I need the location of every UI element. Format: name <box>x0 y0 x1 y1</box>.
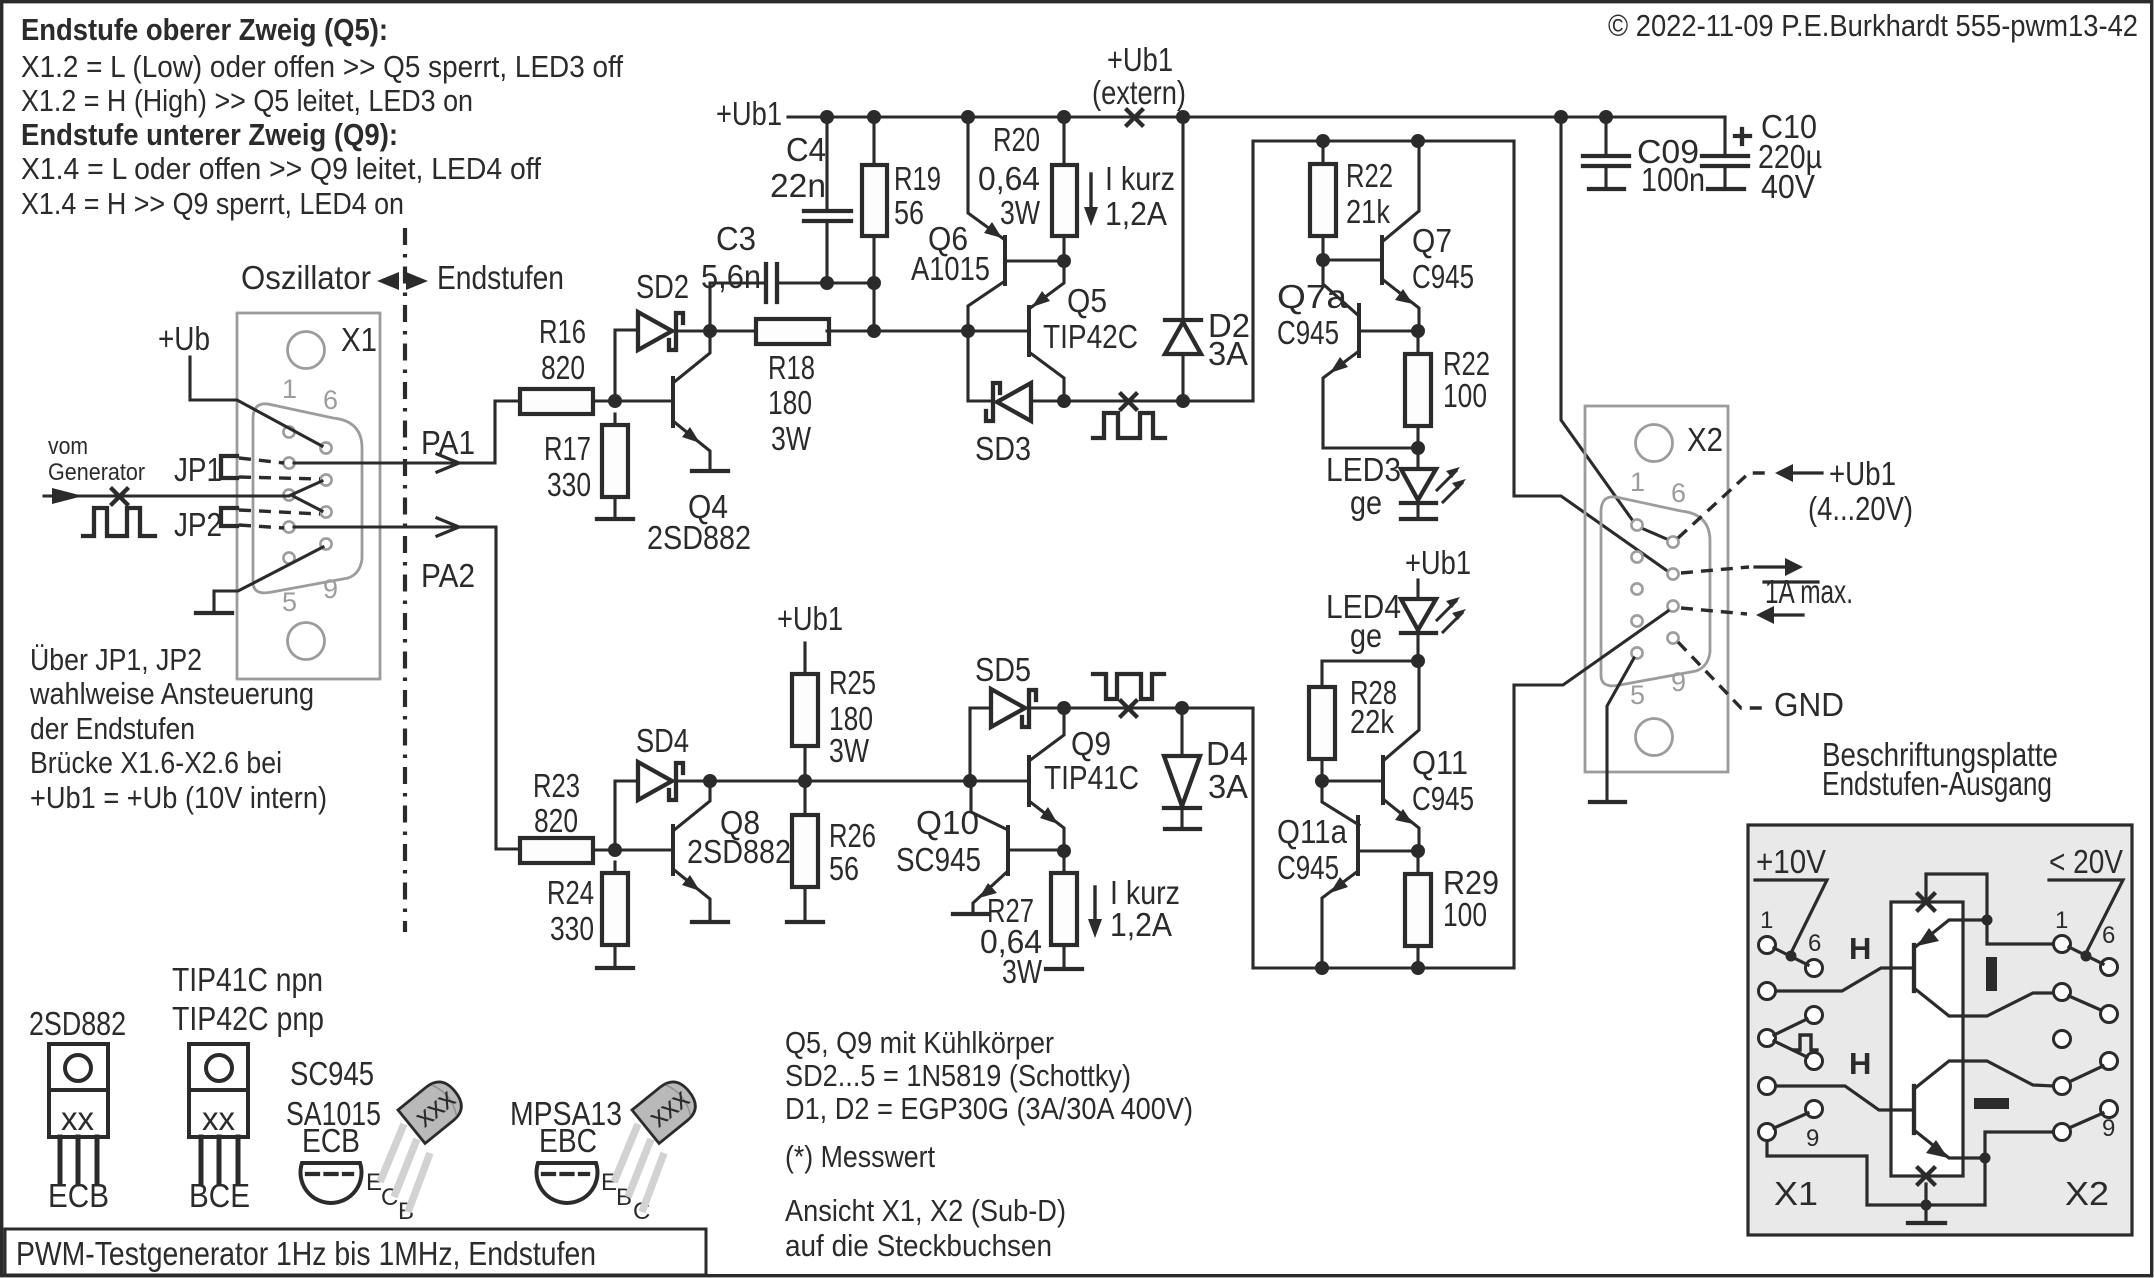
panel X2 pin 8 circle <box>2101 1053 2118 1070</box>
svg-text:xx: xx <box>202 1100 236 1137</box>
wire bottom rail up to X2 pin 8 <box>1514 611 1668 968</box>
node rail/Q6 emitter <box>961 110 975 124</box>
svg-text:auf die Steckbuchsen: auf die Steckbuchsen <box>785 1228 1052 1263</box>
svg-text:+Ub1 = +Ub (10V intern): +Ub1 = +Ub (10V intern) <box>30 780 327 815</box>
svg-text:2SD882: 2SD882 <box>687 833 791 870</box>
svg-text:+Ub1: +Ub1 <box>777 600 843 637</box>
svg-text:9: 9 <box>1671 667 1686 697</box>
svg-text:3A: 3A <box>1208 335 1248 372</box>
svg-text:6: 6 <box>323 385 338 415</box>
svg-text:SD2: SD2 <box>636 268 689 305</box>
TO-220 package 2SD882 <box>48 1044 109 1214</box>
square wave icon (generator) <box>83 508 155 536</box>
svg-text:R20: R20 <box>993 121 1040 158</box>
resistor R20 <box>1052 165 1077 236</box>
svg-text:5: 5 <box>1630 680 1645 710</box>
svg-text:A1015: A1015 <box>911 250 990 287</box>
resistor R17 <box>602 425 628 497</box>
ground terminal X2 <box>1590 800 1625 804</box>
ground terminal Q10 <box>953 912 989 916</box>
node rail2/Q7 collector <box>1411 134 1425 148</box>
TO-92 3D package (SC945) <box>380 1075 469 1212</box>
svg-text:6: 6 <box>1671 478 1686 508</box>
svg-text:EBC: EBC <box>539 1122 597 1159</box>
x mark on +Ub1 rail <box>1127 110 1142 125</box>
svg-text:1,2A: 1,2A <box>1110 906 1172 943</box>
panel wire emitter to pin5 (X2) <box>1985 1132 2054 1158</box>
svg-text:56: 56 <box>829 850 859 887</box>
svg-text:R17: R17 <box>544 430 591 467</box>
panel X2 pin 1 circle <box>2054 936 2071 953</box>
svg-text:Generator: Generator <box>48 459 145 486</box>
resistor R28 <box>1309 687 1335 759</box>
svg-text:3W: 3W <box>829 732 870 769</box>
svg-text:1: 1 <box>1760 907 1773 934</box>
panel lower transistor (NPN) <box>1912 1086 1916 1133</box>
TO-92 outline MPSA13 <box>537 1163 651 1225</box>
arrows between Oszillator and Endstufen <box>377 272 399 290</box>
+Ub1 rail wire <box>788 115 1725 118</box>
svg-text:6: 6 <box>1808 930 1821 957</box>
svg-text:22k: 22k <box>1350 703 1394 740</box>
svg-text:SC945: SC945 <box>896 841 981 878</box>
LED4 light arrows <box>1437 601 1456 620</box>
resistor R16 <box>520 389 593 414</box>
svg-text:JP1: JP1 <box>174 451 222 488</box>
panel X2 pin 4 circle <box>2054 1078 2071 1095</box>
arrow return <box>1756 606 1774 624</box>
svg-text:SD2...5 = 1N5819 (Schottky): SD2...5 = 1N5819 (Schottky) <box>785 1058 1131 1093</box>
svg-text:180: 180 <box>768 384 812 421</box>
svg-text:X1: X1 <box>341 321 377 358</box>
svg-text:100: 100 <box>1443 377 1487 414</box>
svg-text:56: 56 <box>894 194 924 231</box>
panel X2 pin 5 circle <box>2054 1124 2071 1141</box>
wire vom Generator to X1 pin 3 <box>44 494 289 497</box>
dashed return X2 pin 8 <box>1681 608 1747 614</box>
panel X2 pin 6 circle <box>2101 959 2118 976</box>
note text block top-left <box>21 12 623 221</box>
wire Q4 collector node to R18 <box>710 329 756 332</box>
ground terminal R17 <box>597 517 633 521</box>
svg-text:Oszillator: Oszillator <box>241 259 371 296</box>
dashed GND X2 pin 9 <box>1678 642 1766 708</box>
TO-92 outline SC945/SA1015 <box>300 1163 414 1225</box>
panel X2 pin 7 circle <box>2101 1006 2118 1023</box>
TO-220 package TIP41C/42C <box>189 1044 250 1214</box>
svg-text:C945: C945 <box>1277 849 1339 886</box>
svg-text:1,2A: 1,2A <box>1105 195 1167 232</box>
svg-text:ge: ge <box>1350 484 1382 521</box>
panel mark I (high) <box>1986 957 1997 991</box>
resistor R25 <box>792 674 818 746</box>
svg-text:100: 100 <box>1443 896 1487 933</box>
svg-text:9: 9 <box>323 574 338 604</box>
X1 pin 3 <box>283 489 294 500</box>
X1 pin 5 <box>283 552 294 563</box>
X2 pin 2 <box>1631 551 1642 562</box>
node D2/output <box>1176 394 1190 408</box>
wire rail lower <box>710 779 970 782</box>
panel X1 pin 4 circle <box>1759 1078 1776 1095</box>
node LED4/Q11 collector/R28 <box>1411 654 1425 668</box>
svg-text:Über JP1, JP2: Über JP1, JP2 <box>30 642 202 677</box>
svg-text:SD3: SD3 <box>975 430 1031 467</box>
svg-text:LED3: LED3 <box>1326 451 1401 488</box>
output wire upper stage <box>1064 399 1253 402</box>
svg-text:Endstufen: Endstufen <box>437 259 564 296</box>
svg-text:21k: 21k <box>1346 193 1390 230</box>
arrow +Ub1 extern <box>1775 464 1793 482</box>
svg-text:9: 9 <box>1806 1125 1819 1152</box>
resistor R26 <box>792 815 818 887</box>
square wave icon upper output <box>1093 413 1165 438</box>
x mark box bottom <box>1918 1168 1934 1184</box>
X2 pin 6 <box>1667 536 1678 547</box>
svg-text:C945: C945 <box>1277 314 1339 351</box>
JP2 dashed wires <box>239 510 320 514</box>
panel X1 pin 5 circle <box>1759 1124 1776 1141</box>
X1 pin 8 <box>320 506 331 517</box>
panel X2 pin 3 circle <box>2054 1031 2071 1048</box>
svg-text:xx: xx <box>61 1100 95 1137</box>
panel top loop wire <box>1926 874 2054 944</box>
X1 pin 4 <box>283 521 294 532</box>
svg-text:40V: 40V <box>1761 168 1815 205</box>
ground terminal X1 <box>196 611 232 615</box>
panel X1 pin 6 circle <box>1806 960 1823 977</box>
svg-text:Q7: Q7 <box>1412 222 1452 259</box>
svg-text:X1.2 = H (High) >> Q5 leitet,: X1.2 = H (High) >> Q5 leitet, LED3 on <box>21 83 473 118</box>
node Q10 collector/rail/SD5/Q9 base <box>963 774 977 788</box>
panel mark - (low) <box>1974 1098 2009 1109</box>
svg-text:+Ub1: +Ub1 <box>1405 544 1471 581</box>
svg-text:X2: X2 <box>2065 1175 2109 1212</box>
svg-text:D1, D2 = EGP30G (3A/30A 400V): D1, D2 = EGP30G (3A/30A 400V) <box>785 1091 1193 1126</box>
X2 pin 1 <box>1631 519 1642 530</box>
resistor R22 (21k) <box>1310 164 1336 236</box>
svg-text:330: 330 <box>547 466 591 503</box>
X2 pin 8 <box>1667 600 1678 611</box>
svg-text:+Ub1: +Ub1 <box>1107 41 1173 78</box>
svg-text:SD5: SD5 <box>975 651 1031 688</box>
svg-text:2SD882: 2SD882 <box>647 519 751 556</box>
node rail/R19 <box>867 110 881 124</box>
panel X1 pin 3 circle <box>1759 1030 1776 1047</box>
ground terminal R26 <box>787 920 823 924</box>
node R19/C3 <box>867 276 881 290</box>
svg-text:© 2022-11-09 P.E.Burkhardt 555: © 2022-11-09 P.E.Burkhardt 555-pwm13-42 <box>1608 8 2138 43</box>
node R23/R24/SD4 <box>608 843 622 857</box>
svg-text:SD4: SD4 <box>636 722 689 759</box>
svg-text:1: 1 <box>282 374 297 404</box>
bridge X2 pin1 to pin6 <box>1639 527 1669 540</box>
wire stub 1A max <box>1764 580 1818 583</box>
current arrow I kurz (lower) <box>1093 887 1096 925</box>
svg-text:R19: R19 <box>894 160 941 197</box>
title box <box>5 1229 706 1275</box>
svg-text:Q5: Q5 <box>1067 282 1107 319</box>
svg-text:(*) Messwert: (*) Messwert <box>785 1139 935 1174</box>
ground terminal D4 <box>1165 827 1200 831</box>
arrow output <box>1785 558 1803 576</box>
X1 pin 7 <box>320 474 331 485</box>
panel X2 1-6 bridge <box>2069 947 2103 964</box>
arrow PA2 <box>437 518 459 536</box>
svg-text:2SD882: 2SD882 <box>29 1005 126 1042</box>
panel X1 pin 1 circle <box>1759 937 1776 954</box>
x mark on generator wire <box>112 489 127 504</box>
ground terminal Q4 <box>692 469 728 473</box>
panel X2 2-7 bridge <box>2069 996 2103 1011</box>
arrow on generator wire <box>52 488 83 504</box>
svg-text:R23: R23 <box>533 767 580 804</box>
wire Y split X1 pin3 to pins 7 and 8 <box>291 481 322 511</box>
node Q4 collector / SD2 / C3 <box>703 324 717 338</box>
svg-text:ge: ge <box>1350 617 1382 654</box>
panel X1 pin 2 circle <box>1759 983 1776 1000</box>
panel wire pin2 to upper base <box>1776 968 1912 991</box>
node rail2/R22 <box>1316 134 1330 148</box>
node D4/output <box>1175 701 1189 715</box>
node R25/R26 <box>798 774 812 788</box>
node Q11 emitter/Q11a base/R29 <box>1411 844 1425 858</box>
svg-text:X1.4 = L oder offen >> Q9 leit: X1.4 = L oder offen >> Q9 leitet, LED4 o… <box>21 151 541 186</box>
svg-text:22n: 22n <box>770 167 826 204</box>
svg-text:9: 9 <box>2102 1115 2115 1142</box>
svg-text:BCE: BCE <box>189 1177 250 1214</box>
ground terminal R24 <box>597 966 633 970</box>
svg-text:330: 330 <box>550 910 594 947</box>
svg-text:X2: X2 <box>1687 421 1723 458</box>
svg-text:SC945: SC945 <box>290 1055 374 1092</box>
panel emitter node lower <box>1980 1153 1991 1164</box>
svg-text:Endstufe oberer Zweig (Q5):: Endstufe oberer Zweig (Q5): <box>21 12 388 47</box>
svg-text:H: H <box>1849 1046 1871 1081</box>
wire +Ub to X1 pin 6 <box>190 357 322 446</box>
node R19/R18 line <box>867 324 881 338</box>
node C3/C4 <box>820 276 834 290</box>
resistor R27 <box>1051 873 1077 945</box>
svg-text:TIP41C npn: TIP41C npn <box>172 961 323 998</box>
panel gnd symbol <box>1924 1184 1927 1222</box>
X2 pin 4 <box>1631 615 1642 626</box>
svg-text:H: H <box>1849 931 1871 966</box>
svg-text:3W: 3W <box>771 420 812 457</box>
connector X2 (DB9, gray) <box>1585 406 1728 772</box>
X1 pin 2 <box>283 457 294 468</box>
svg-text:R26: R26 <box>829 817 876 854</box>
panel wire emitter down to gnd rail <box>1983 1158 1986 1205</box>
X1 pin 9 <box>320 538 331 549</box>
svg-text:Ansicht X1, X2 (Sub-D): Ansicht X1, X2 (Sub-D) <box>785 1193 1066 1228</box>
panel small square wave <box>1794 1035 1817 1050</box>
svg-text:0,64: 0,64 <box>978 160 1040 197</box>
panel plate <box>1748 825 2132 1235</box>
X2 pin 5 <box>1631 647 1642 658</box>
dashed output X2 pin 7 <box>1681 567 1749 573</box>
wire output to LED driver (upper) <box>1253 141 1514 401</box>
panel gnd node <box>1921 1200 1932 1211</box>
svg-text:3W: 3W <box>1002 953 1043 990</box>
node Q5 collector/SD3 <box>1057 394 1071 408</box>
X2 pin 7 <box>1667 568 1678 579</box>
panel X2 5-9 bridge <box>2069 1113 2103 1128</box>
panel upper transistor (PNP) <box>1912 945 1916 991</box>
panel wire pin4 to lower base <box>1776 1086 1912 1110</box>
svg-text:Q5, Q9 mit Kühlkörper: Q5, Q9 mit Kühlkörper <box>785 1025 1054 1060</box>
JP1 dashed wires <box>239 458 284 463</box>
svg-text:Endstufen-Ausgang: Endstufen-Ausgang <box>1822 765 2052 802</box>
svg-text:PWM-Testgenerator 1Hz bis 1MHz: PWM-Testgenerator 1Hz bis 1MHz, Endstufe… <box>16 1235 596 1272</box>
svg-text:ECB: ECB <box>302 1122 360 1159</box>
svg-text:TIP42C: TIP42C <box>1043 318 1138 355</box>
svg-text:C4: C4 <box>786 131 826 168</box>
svg-text:Endstufe unterer Zweig (Q9):: Endstufe unterer Zweig (Q9): <box>21 117 398 152</box>
square wave icon lower output <box>1093 674 1164 699</box>
node Q7 emitter/Q7a base/R22-100 <box>1411 324 1425 338</box>
svg-text:1A max.: 1A max. <box>1765 573 1853 610</box>
wire +Ub1 rail to X2 pin 1 <box>1561 117 1633 521</box>
connector X1 (DB9, gray) <box>237 313 380 679</box>
svg-text:Brücke X1.6-X2.6 bei: Brücke X1.6-X2.6 bei <box>30 745 282 780</box>
svg-text:ECB: ECB <box>48 1177 109 1214</box>
panel X2 pin 9 circle <box>2101 1101 2118 1118</box>
panel wire pin5 to gnd rail <box>1767 1142 1985 1205</box>
wire node to Q9 base <box>970 779 1029 782</box>
svg-text:6: 6 <box>2102 922 2115 949</box>
svg-text:I kurz: I kurz <box>1105 160 1175 197</box>
x mark upper output <box>1121 394 1136 409</box>
X1 pin 1 <box>283 426 294 437</box>
node rail/R20 <box>1057 110 1071 124</box>
svg-text:vom: vom <box>48 433 88 460</box>
svg-text:(4...20V): (4...20V) <box>1808 490 1913 527</box>
node Q11a emitter/bottom rail <box>1315 961 1329 975</box>
panel X2 4-8 bridge <box>2069 1066 2103 1082</box>
svg-text:TIP42C pnp: TIP42C pnp <box>172 1000 324 1037</box>
node Q8 collector/SD4 <box>703 774 717 788</box>
svg-text:JP2: JP2 <box>174 506 222 543</box>
resistor R29 <box>1405 874 1431 946</box>
output wire lower stage <box>1064 706 1253 709</box>
node R29/bottom rail <box>1411 961 1425 975</box>
wire node to SD4 <box>615 781 638 850</box>
svg-text:+10V: +10V <box>1756 843 1826 880</box>
panel X1 pin 9 circle <box>1806 1101 1823 1118</box>
wire R16 to Q4 base <box>593 399 671 402</box>
svg-text:Q9: Q9 <box>1071 725 1111 762</box>
LED3 light arrows <box>1437 471 1456 490</box>
ground terminal R27 <box>1046 967 1082 971</box>
svg-text:R22: R22 <box>1346 157 1393 194</box>
arrow PA1 <box>437 454 459 472</box>
X2 pin 3 <box>1631 583 1642 594</box>
resistor R24 <box>602 873 628 945</box>
wire X2 pin 5 to ground <box>1607 658 1634 801</box>
node Q9 emitter/Q10 base/R27 <box>1057 844 1071 858</box>
dashed +Ub1 extern to X2 pin 6 <box>1678 473 1771 538</box>
wire node to SD2 <box>615 330 638 401</box>
svg-text:1: 1 <box>1630 467 1645 497</box>
panel X2 pin 2 circle <box>2054 984 2071 1001</box>
resistor R19 <box>862 165 887 236</box>
node rail/X2pin1 wire <box>1554 110 1568 124</box>
node R28/Q11 base/Q11a collector <box>1315 774 1329 788</box>
svg-text:1: 1 <box>2055 907 2068 934</box>
node R22-100/LED3 <box>1411 441 1425 455</box>
panel X1 pin 8 circle <box>1806 1053 1823 1070</box>
node rail/C4 <box>820 110 834 124</box>
svg-text:PA2: PA2 <box>421 557 475 594</box>
svg-text:wahlweise Ansteuerung: wahlweise Ansteuerung <box>29 676 314 711</box>
node rail/D2 <box>1176 110 1190 124</box>
node Q6 collector/R18/Q5 base <box>961 324 975 338</box>
node R20/Q6 base/Q5 emitter <box>1057 254 1071 268</box>
panel Y split pin3 to 7/8 <box>1774 1019 1807 1057</box>
node Q9 collector/SD5 <box>1057 701 1071 715</box>
svg-text:D4: D4 <box>1206 735 1248 772</box>
svg-text:R24: R24 <box>547 874 594 911</box>
svg-text:(extern): (extern) <box>1092 74 1186 111</box>
wire R18 to Q5 base <box>827 329 1029 332</box>
svg-text:+Ub1: +Ub1 <box>1829 455 1896 492</box>
svg-text:C945: C945 <box>1412 258 1474 295</box>
svg-text:Q11a: Q11a <box>1277 813 1348 850</box>
svg-text:Q11: Q11 <box>1412 744 1468 781</box>
svg-text:R25: R25 <box>829 664 876 701</box>
node rail/C09 <box>1599 110 1613 124</box>
svg-text:< 20V: < 20V <box>2049 843 2123 880</box>
TO-92 3D package (MPSA13) <box>614 1075 703 1212</box>
svg-text:PA1: PA1 <box>421 424 475 461</box>
current arrow I kurz (upper) <box>1089 174 1092 212</box>
svg-text:E: E <box>366 1169 382 1196</box>
panel X1 1-6 bridge <box>1774 948 1808 965</box>
resistor R18 <box>756 319 829 344</box>
svg-text:R16: R16 <box>539 313 586 350</box>
svg-text:820: 820 <box>534 802 578 839</box>
wire PA2 <box>294 527 521 849</box>
note text block left (Ueber JP1, JP2) <box>29 642 327 815</box>
svg-text:C945: C945 <box>1412 780 1474 817</box>
svg-text:R18: R18 <box>768 349 815 386</box>
x mark lower output <box>1121 701 1136 716</box>
svg-text:+Ub: +Ub <box>158 320 210 357</box>
dash-dot separator line Oszillator/Endstufen <box>403 228 407 932</box>
wire lower output to bottom rail <box>1253 708 1514 968</box>
X1 pin 6 <box>320 442 331 453</box>
panel X1 5-9 bridge <box>1774 1113 1808 1128</box>
svg-text:der Endstufen: der Endstufen <box>30 711 195 746</box>
svg-text:3A: 3A <box>1208 768 1248 805</box>
svg-text:5: 5 <box>282 587 297 617</box>
svg-text:100n: 100n <box>1641 161 1705 198</box>
svg-text:3W: 3W <box>1000 194 1041 231</box>
svg-text:+Ub1: +Ub1 <box>716 95 782 132</box>
ground terminal Q8 <box>692 920 728 924</box>
wire X1 pin 9 to ground <box>214 547 323 612</box>
white center box <box>1891 902 1963 1176</box>
node R16/R17/SD2 <box>608 394 622 408</box>
note text block bottom middle <box>785 1025 1193 1263</box>
svg-text:GND: GND <box>1774 686 1844 723</box>
wire upper Q7-rail down to X2 pin 7 <box>1514 141 1666 570</box>
resistor R23 <box>520 838 593 863</box>
X2 pin 9 <box>1667 632 1678 643</box>
svg-text:TIP41C: TIP41C <box>1044 759 1139 796</box>
svg-text:X1: X1 <box>1774 1175 1818 1212</box>
